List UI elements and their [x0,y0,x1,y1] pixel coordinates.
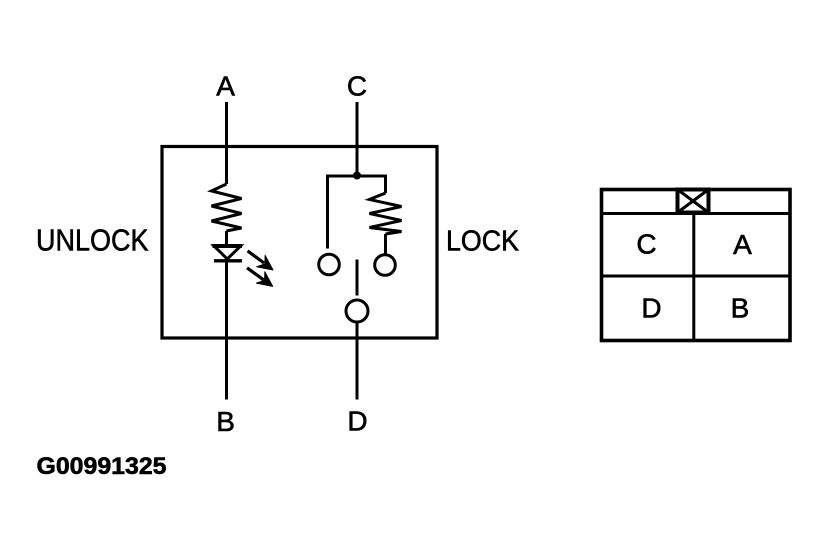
svg-text:B: B [731,293,750,324]
pin label B [216,406,235,437]
LED emission arrow 2 [247,268,273,287]
switch pole circle [346,300,368,322]
connector center divider [692,214,695,341]
svg-text:UNLOCK: UNLOCK [36,223,149,258]
connector cavity D [641,293,661,324]
contact terminal circle left (UNLOCK side) [319,254,340,275]
pin label C [347,71,367,102]
svg-text:C: C [347,71,367,102]
svg-text:G00991325: G00991325 [37,453,167,480]
contact terminal circle right (LOCK side) [375,255,396,276]
wire LED to pin B [225,261,228,400]
svg-text:A: A [216,71,235,102]
svg-text:D: D [347,406,367,437]
LED emission arrow 1 [248,251,273,270]
connector header line [602,212,791,215]
svg-text:D: D [641,293,661,324]
label UNLOCK [36,223,149,258]
resistor R2 (lock side) [370,193,402,234]
connector keying tab [678,190,709,213]
wire A (pin A lead) [225,102,228,184]
pin label D [347,406,367,437]
connector cavity C [636,229,656,260]
svg-text:LOCK: LOCK [446,226,520,258]
connector outline [602,190,791,341]
connector cavity B [731,293,750,324]
switch body outline [162,147,437,339]
connector row divider [602,275,791,278]
wire branch bus [328,176,386,249]
resistor R1 (LED series resistor) [212,184,242,231]
figure id G00991325 [37,453,167,480]
svg-text:C: C [636,229,656,260]
node junction dot [353,172,361,180]
label LOCK [446,226,520,258]
svg-text:A: A [733,229,752,260]
LED D1 [213,246,243,261]
pin label A [216,71,235,102]
wire pole to pin D [356,322,359,400]
wire R2 to contact [384,234,387,254]
connector cavity A [733,229,752,260]
wire C (pin C lead) [356,102,359,176]
wire resistor to LED [225,231,228,246]
switch pole wire [356,260,359,296]
svg-text:B: B [216,406,235,437]
